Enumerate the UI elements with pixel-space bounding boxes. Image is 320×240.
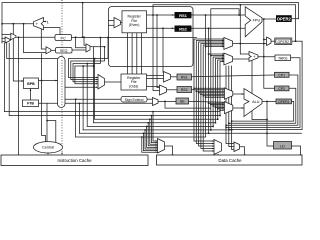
mux M7 RS1 mux [164,72,171,83]
wire mux M2 out to M1 [9,39,12,40]
wire bus drop b4 [82,66,84,130]
wire ALU out bus drop [267,101,275,146]
wire dcache mux feed 4 [148,123,157,146]
wire bus y4 TARG [226,58,300,128]
wire left bus drop 2 [8,43,10,116]
wire bus y1 left [5,111,221,113]
svg-text:RS2: RS2 [179,27,188,32]
wire column M9 [229,66,234,147]
wire black OPER2 out [292,18,299,20]
wire even read 2 to RS2 [147,27,175,29]
wire write port 2 [131,33,133,74]
wire constant 1 into incrementer [44,21,47,23]
wire alumux2 stubs [209,103,225,110]
svg-text:Instruction Cache: Instruction Cache [57,158,92,163]
arrow into ALU a [242,93,244,95]
wire SE mux out [158,100,176,102]
wire RS2 latch out to FPU [192,27,246,29]
wire exmux2 out to adder [233,58,249,60]
arrow into RS2 [172,28,175,30]
mux M8 RS2 mux [160,85,167,95]
Data Cache [157,155,303,165]
wire even mux input b [109,24,115,26]
Register File Odd [121,74,147,90]
FPU unit [245,7,262,37]
wire FTB drop to control [46,103,48,142]
wire sign extend to SE mux [147,98,153,100]
wire v7 stub [209,53,224,55]
ALU unit [244,89,262,117]
mux M11 ALU input b [224,102,232,114]
wire top line drop to M4 [82,3,84,38]
mux M3 sequencer mux [46,47,51,54]
wire forwarding lane [240,5,249,54]
svg-text:LD: LD [280,144,285,148]
wire odd read 2 [147,78,164,80]
wire mux M1 out to PC [16,36,55,38]
arrow FTB to BPB [30,89,32,92]
wire bus y3 CP1 [226,75,298,125]
svg-text:RS2: RS2 [181,88,188,92]
wire bus y5 left [87,125,213,127]
wire immediate bus drop [75,99,77,137]
wire PC line drop to M4 [84,37,86,45]
svg-text:PC: PC [61,36,67,40]
svg-text:(Odd): (Odd) [129,84,138,88]
wire dcache mux feed 8 [142,137,158,152]
wire FTB branch to control right [47,121,56,143]
wire BPB to control [39,80,58,82]
wire column v10 [215,59,224,123]
mux M5 even regfile mux [114,18,121,28]
OPER1 gray latch [276,99,292,104]
wire alumux1 stubs [194,88,224,97]
wire bus y5 [229,41,302,129]
mux M6 odd regfile mux [98,75,105,90]
arrows into store mux [212,140,214,151]
wire dcache mux feed 3 [150,119,158,144]
wire column v2 [196,41,224,144]
wire ALU out [262,100,276,102]
wire odd mux staircase 3 [73,38,100,82]
wire SE gray out [189,100,225,103]
wire column v6 [205,15,207,137]
wire v8 stub [211,55,224,57]
arrows into EX1 mux [222,38,224,47]
wire bus y7 [79,132,301,134]
svg-text:ALU: ALU [252,100,260,104]
arrow constant one [44,21,46,23]
mux M2 [5,37,10,43]
svg-text:CP1: CP1 [278,74,285,78]
mux EX2 [224,53,233,65]
wire queue stub left [7,43,58,59]
wire column M8 [226,66,234,144]
wire FTB right run to SE mux [39,102,153,104]
branch adder [249,52,258,62]
LD gray latch [274,142,292,150]
Control ellipse [34,142,63,155]
svg-text:Central: Central [42,146,54,150]
wire column c1 [157,15,160,88]
incrementer adder [34,18,50,30]
wire odd read 3 [147,86,160,88]
arrows into EX2 mux [222,53,224,62]
wire to SEQ mux input a [41,28,46,49]
wire column v7 [208,28,210,133]
OPER2 black latch [276,15,292,22]
mux M9 SE mux [153,98,159,106]
wire exmux1 out [233,43,267,45]
wire column v12 [220,62,224,116]
wire icache fetch address [18,37,20,155]
wire dcache mux feed 2 [151,116,157,143]
wire odd mux staircase 2 [71,47,105,80]
svg-text:FTB: FTB [27,102,34,106]
mux M12 oper2 mux [267,37,272,46]
wire even mux out [121,22,123,24]
wire bus drop b2 [92,66,94,123]
wire column v3 [199,42,224,146]
wire bus y4 left [93,122,215,124]
wire column c3 [162,28,164,72]
SEQ register [56,48,73,54]
wire mux M2 input b [2,41,5,43]
dotted control line [61,0,63,153]
wire dcache to LD [290,146,301,155]
arrow into RS1 [172,14,175,16]
wire white OPER2 out [292,40,302,42]
wire bus drop b3 [86,64,88,127]
wire m3 drop to control [42,54,46,142]
wire mux M1 input a [2,34,11,36]
wire top feedback bus [2,3,299,43]
wire FTB bus drop [78,103,80,133]
SE gray latch [176,98,189,104]
wire write port 4 [141,33,143,74]
wire column v5 [203,45,224,151]
svg-text:Sign Extend: Sign Extend [125,98,144,102]
wire column v8 FPU forward [211,9,239,130]
wire RS1 mux out [171,76,178,78]
wire adder to TARG [258,56,275,58]
TARG latch [275,55,291,61]
wire bus y6 [83,129,232,131]
wire RS1 gray out [192,75,275,77]
svg-text:OPER2: OPER2 [277,17,292,22]
wire alumux outs [233,94,244,108]
wire odd mux staircase 4 [75,47,98,84]
svg-text:RS1: RS1 [179,13,188,18]
wire M4 out [90,46,105,48]
wire bus drop b1 [94,59,96,120]
wire adder output to left [2,23,34,25]
wire bus y2 CP2 [229,88,296,123]
wire even read 1 to RS1 [147,14,175,16]
wire odd mux out [105,81,122,83]
wire oper2 white feedback [153,5,296,91]
instruction queue capsule [58,57,66,108]
arrow into queue [55,80,57,82]
wire BPB input drop [13,24,23,81]
wire column M10 [232,66,234,150]
svg-text:FPU: FPU [253,19,261,23]
wire to SEQ mux input b [24,24,47,53]
svg-text:SE: SE [180,100,185,104]
mux M15 store mux [214,140,222,155]
RS1 gray latch [177,74,192,80]
wire dcache mux out [165,146,173,155]
wire FPU out branch to mux [264,19,275,88]
wire bus y3 left [95,118,218,120]
mux M4 fetch mux [86,44,90,52]
wire BPB to FTB [30,89,32,101]
svg-text:SEQ: SEQ [60,49,68,53]
svg-text:TARG: TARG [278,56,288,60]
wire adder out drop [252,60,267,120]
CP1 gray latch [275,72,290,77]
svg-text:RS1: RS1 [181,76,188,80]
wire dcache mux feed 5 [147,126,158,147]
BPB box [24,78,39,89]
wire immediate to sign extend [65,98,121,100]
wire mux M2 input a [2,37,5,39]
wire bus y2 left [9,115,220,117]
Register File Even [122,11,147,33]
mux M10 ALU input a [224,88,232,99]
wire queue stub to odd mux [65,86,98,88]
wire dcache mux feed 1 [153,112,158,141]
wire PC to incrementer [44,28,61,35]
svg-text:Data Cache: Data Cache [218,158,242,163]
dotted line inside queue [61,60,63,107]
arrows into dcache mux [156,140,158,153]
wire PC out long run [72,37,197,39]
wire branch to mux M12 [264,39,267,41]
wire FPU out [262,18,276,20]
wire bus y8 [76,136,206,138]
svg-text:CP2: CP2 [278,87,285,91]
wire register file enclosure [109,7,194,67]
wire write port 3 [136,33,138,74]
arrows into ALU mux b [223,102,225,111]
wire addr mux out [240,147,245,155]
Instruction Cache [1,155,148,166]
arrows into odd mux [96,77,98,88]
arrow dotted to icache [61,153,63,155]
wire left bus drop 1 [4,43,6,112]
svg-text:(Even): (Even) [129,23,140,27]
mux EX1 [224,38,233,50]
PC register [55,35,72,41]
OPER2 white latch [275,38,292,45]
wire dcache mux feed 7 [143,133,157,150]
wire bus y0 [165,101,211,108]
wire RS2 gray out [192,89,225,91]
wire RS1 latch out to FPU [192,14,246,16]
wire column v11 [218,60,224,119]
svg-text:BPB: BPB [27,82,35,86]
wire PC to mux M4 [76,37,87,48]
wire v6 stub [206,46,224,48]
wire odd mux staircase 1 [69,38,109,78]
wire even mux input a [109,19,115,21]
svg-text:OPER1: OPER1 [278,100,290,104]
wire write port 1 [126,33,128,74]
wire odd read 1 [147,75,164,77]
wire SEQ out to mux M4 [72,49,86,51]
arrow into BPB [22,80,24,82]
FTB box [23,100,39,107]
wire column v9 [213,57,224,126]
wire bus y1 OPER1 [232,101,294,121]
RS2 black latch [175,26,192,32]
arrow into ALU b [242,107,244,109]
RS1 black latch [175,12,192,18]
wire mux to white OPER2 [271,40,275,42]
Sign Extend box [121,97,147,103]
CP2 gray latch [275,86,290,91]
mux M16 addr mux [234,142,240,152]
svg-text:OPER2: OPER2 [278,40,290,44]
mux M14 dcache mux [158,139,165,154]
wire column v4 [201,44,224,149]
wire SEQ mux out [51,49,56,51]
RS2 gray latch [177,87,192,93]
wire dcache mux feed 6 [145,130,158,149]
mux M1 [11,33,16,40]
wire RS2 mux out [167,89,178,91]
wire column v1 [194,39,224,141]
arrows into ALU mux a [223,88,225,98]
